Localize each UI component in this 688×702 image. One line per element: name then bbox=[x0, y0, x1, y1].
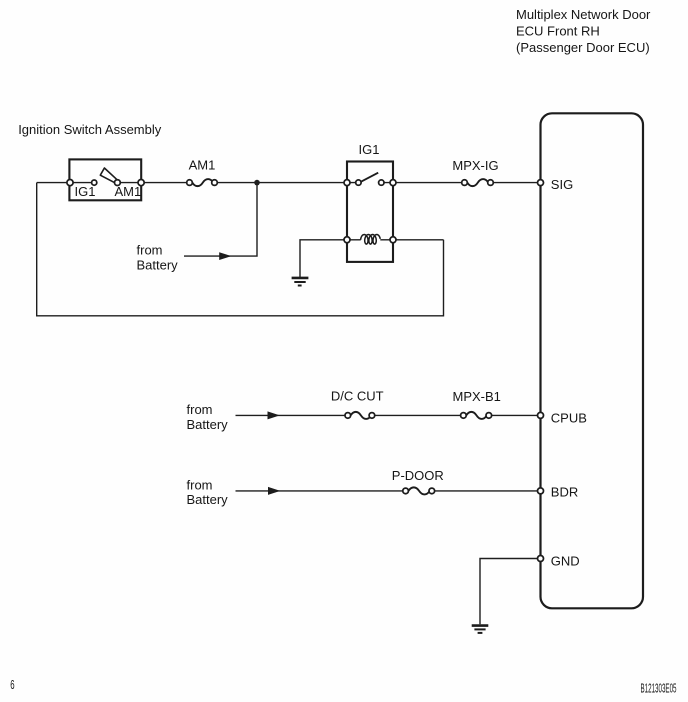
wire: battery feed to BDR pin bbox=[236, 490, 541, 492]
svg-text:IG1: IG1 bbox=[75, 184, 96, 199]
svg-text:from: from bbox=[137, 242, 163, 257]
svg-text:Multiplex Network Door: Multiplex Network Door bbox=[516, 7, 651, 22]
svg-text:CPUB: CPUB bbox=[551, 411, 587, 426]
fuse D/C CUT bbox=[345, 412, 375, 419]
ignition switch assembly box bbox=[69, 159, 141, 200]
wire: AM1 contact to AM1 fuse bbox=[117, 182, 189, 184]
ground (relay coil) bbox=[292, 278, 309, 286]
svg-text:Battery: Battery bbox=[187, 492, 229, 507]
svg-text:IG1: IG1 bbox=[359, 142, 380, 157]
svg-text:B121303E05: B121303E05 bbox=[641, 680, 677, 695]
switch lever bbox=[100, 168, 117, 183]
wire: relay coil row right bbox=[380, 239, 443, 241]
wire: battery feed to CPUB pin bbox=[236, 414, 541, 416]
relay contact blade bbox=[361, 173, 378, 182]
wire: GND pin to ground bbox=[480, 559, 541, 625]
svg-text:BDR: BDR bbox=[551, 485, 578, 500]
wire: AM1 fuse to relay contact bbox=[215, 182, 359, 184]
wire: junction drop to battery feed bbox=[184, 183, 257, 257]
pin GND bbox=[538, 556, 544, 562]
wire: relay coil row left with ground drop bbox=[300, 240, 361, 277]
svg-text:ECU Front RH: ECU Front RH bbox=[516, 23, 600, 38]
svg-text:D/C CUT: D/C CUT bbox=[331, 389, 384, 404]
wire: left feed into ignition switch box bbox=[37, 182, 94, 184]
relay coil bbox=[361, 235, 381, 245]
fuse MPX-IG bbox=[462, 179, 494, 186]
ignition switch terminals bbox=[67, 180, 144, 186]
svg-text:6: 6 bbox=[10, 678, 14, 693]
junction node bbox=[254, 180, 260, 186]
svg-text:from: from bbox=[187, 477, 213, 492]
relay IG1 box bbox=[347, 162, 393, 262]
fuse P-DOOR bbox=[403, 487, 435, 494]
svg-text:SIG: SIG bbox=[551, 177, 573, 192]
wire: MPX-IG fuse to SIG pin bbox=[491, 182, 541, 184]
svg-text:Battery: Battery bbox=[137, 258, 179, 273]
ground (ECU GND) bbox=[472, 626, 489, 633]
svg-text:from: from bbox=[187, 402, 213, 417]
arrow from Battery (top) bbox=[219, 252, 231, 260]
pin SIG bbox=[538, 180, 544, 186]
wire: loop from IG1 terminal down-around to relay coil bbox=[37, 183, 444, 316]
svg-text:GND: GND bbox=[551, 554, 580, 569]
svg-text:Battery: Battery bbox=[187, 417, 229, 432]
svg-text:Ignition Switch Assembly: Ignition Switch Assembly bbox=[18, 122, 162, 137]
fuse AM1 bbox=[187, 179, 218, 186]
svg-text:(Passenger Door ECU): (Passenger Door ECU) bbox=[516, 40, 650, 55]
wire: relay contact to MPX-IG fuse bbox=[381, 182, 464, 184]
fuse MPX-B1 bbox=[461, 412, 492, 419]
svg-text:P-DOOR: P-DOOR bbox=[392, 468, 444, 483]
svg-text:AM1: AM1 bbox=[115, 184, 142, 199]
pin CPUB bbox=[538, 412, 544, 418]
relay terminals bbox=[344, 180, 396, 243]
svg-text:AM1: AM1 bbox=[189, 157, 216, 172]
svg-text:MPX-IG: MPX-IG bbox=[452, 158, 498, 173]
arrow from Battery (BDR row) bbox=[268, 487, 280, 495]
arrow from Battery (CPUB row) bbox=[268, 411, 280, 419]
pin BDR bbox=[538, 488, 544, 494]
svg-text:MPX-B1: MPX-B1 bbox=[452, 389, 500, 404]
ECU box bbox=[541, 113, 644, 608]
